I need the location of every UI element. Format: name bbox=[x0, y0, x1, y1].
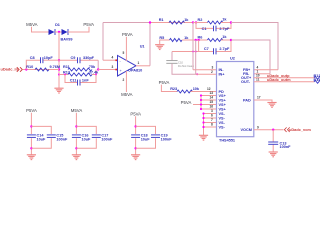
svg-text:3: 3 bbox=[112, 65, 114, 69]
node C7 right bbox=[230, 39, 232, 41]
svg-text:13: 13 bbox=[210, 91, 214, 95]
svg-text:THS4551: THS4551 bbox=[219, 139, 235, 143]
wire diode link bbox=[55, 31, 62, 33]
svg-text:VS+: VS+ bbox=[219, 103, 227, 107]
svg-text:VS+: VS+ bbox=[219, 94, 227, 98]
wire R13 row bbox=[59, 70, 96, 75]
wire VS- bus bbox=[204, 114, 217, 136]
wire R6 right bbox=[221, 39, 231, 41]
svg-text:C9: C9 bbox=[71, 56, 76, 60]
svg-text:U1: U1 bbox=[140, 45, 145, 49]
wire group2 tee bbox=[76, 126, 96, 148]
wire feedback vertical bbox=[102, 23, 104, 61]
node VS- 3 bbox=[202, 121, 204, 123]
capacitor C18 bbox=[131, 134, 140, 136]
svg-text:1nF: 1nF bbox=[82, 78, 89, 82]
svg-text:uDadc_in: uDadc_in bbox=[1, 67, 19, 72]
ground (group2) bbox=[72, 155, 81, 160]
svg-text:P5VA: P5VA bbox=[159, 80, 170, 85]
node C10 to IN+ bbox=[196, 73, 198, 75]
diode D1a bbox=[49, 29, 55, 35]
node diode junction bbox=[58, 31, 60, 33]
node VOCM bbox=[272, 129, 274, 131]
svg-text:BAV99: BAV99 bbox=[61, 38, 73, 42]
svg-text:9: 9 bbox=[257, 125, 259, 129]
svg-text:IN-: IN- bbox=[219, 68, 225, 72]
wire input bbox=[23, 69, 59, 71]
svg-text:P5VA: P5VA bbox=[83, 22, 94, 27]
node R5/R6 junction bbox=[195, 39, 197, 41]
svg-text:10uF: 10uF bbox=[37, 137, 47, 141]
node VS- 1 bbox=[202, 112, 204, 114]
resistor R1 bbox=[169, 21, 184, 24]
svg-text:100nF: 100nF bbox=[56, 137, 68, 141]
wire R2 right bbox=[221, 22, 231, 24]
node VS+ 1 bbox=[200, 94, 202, 96]
svg-text:15: 15 bbox=[210, 100, 214, 104]
svg-text:9.76M: 9.76M bbox=[50, 65, 61, 69]
op-amp U1 bbox=[118, 56, 137, 77]
svg-text:R10: R10 bbox=[26, 65, 33, 69]
svg-text:VS-: VS- bbox=[219, 112, 226, 116]
svg-text:M5VA: M5VA bbox=[121, 92, 133, 97]
wire to R1 bbox=[150, 22, 193, 24]
capacitor C13 bbox=[272, 130, 274, 152]
node at resistor row bbox=[58, 68, 60, 70]
svg-text:16: 16 bbox=[210, 105, 214, 109]
wire C7 loop left bbox=[198, 40, 200, 52]
svg-text:R6: R6 bbox=[198, 35, 203, 39]
node VS+ 2 bbox=[200, 99, 202, 101]
svg-text:17: 17 bbox=[257, 96, 261, 100]
svg-text:2.7pF: 2.7pF bbox=[219, 47, 230, 51]
svg-text:R2: R2 bbox=[198, 18, 203, 22]
node group3 bottom bbox=[134, 147, 136, 149]
pin dot op-amp bbox=[115, 69, 117, 71]
ground (C13) bbox=[269, 152, 278, 157]
svg-text:VS+: VS+ bbox=[219, 107, 227, 111]
svg-text:uDadc_vcm: uDadc_vcm bbox=[289, 127, 311, 132]
svg-text:IN+: IN+ bbox=[219, 73, 226, 77]
wire op-amp V- stub bbox=[125, 71, 127, 92]
wire group3 stem bbox=[135, 116, 137, 155]
node C9 drop bbox=[97, 68, 99, 70]
wire feedback loop FB- bbox=[231, 40, 270, 74]
svg-text:R5: R5 bbox=[159, 36, 164, 40]
svg-text:10pF: 10pF bbox=[44, 56, 54, 60]
node group1 top bbox=[30, 125, 32, 127]
resistor R5 bbox=[170, 39, 183, 42]
capacitor C11 bbox=[65, 75, 96, 83]
port uDadc_vcm bbox=[284, 127, 289, 132]
svg-text:U2: U2 bbox=[230, 57, 235, 61]
wire to P5VA bbox=[68, 27, 89, 32]
resistor R14 bbox=[314, 80, 320, 83]
node C7 row bbox=[195, 51, 197, 53]
resistor R2 bbox=[207, 21, 222, 24]
svg-text:5: 5 bbox=[123, 51, 125, 55]
svg-text:VS-: VS- bbox=[219, 116, 226, 120]
svg-text:R1: R1 bbox=[159, 18, 164, 22]
node VS+ 4 bbox=[200, 108, 202, 110]
svg-text:C10: C10 bbox=[178, 60, 183, 64]
ground (group1) bbox=[27, 155, 36, 160]
node R13 left bbox=[64, 74, 66, 76]
svg-text:D1: D1 bbox=[55, 23, 60, 27]
node C1 left bbox=[195, 21, 197, 23]
wire op-amp output bbox=[136, 65, 150, 67]
node input bbox=[25, 68, 27, 70]
svg-text:330pF: 330pF bbox=[83, 56, 95, 60]
node group1 bottom bbox=[30, 147, 32, 149]
svg-text:P5VA: P5VA bbox=[181, 100, 192, 105]
svg-text:P5VA: P5VA bbox=[26, 108, 37, 113]
svg-text:100nF: 100nF bbox=[161, 137, 173, 141]
node output feedback bbox=[149, 21, 151, 23]
resistor R6 bbox=[207, 39, 222, 42]
wire group1 tee bbox=[31, 126, 51, 148]
node VS- 2 bbox=[202, 117, 204, 119]
svg-text:OUT-: OUT- bbox=[241, 80, 251, 84]
wire IN- stub bbox=[193, 69, 217, 71]
svg-text:VS-: VS- bbox=[219, 121, 226, 125]
svg-text:2: 2 bbox=[211, 70, 213, 74]
svg-text:2: 2 bbox=[123, 78, 125, 82]
diode D1b bbox=[62, 29, 68, 35]
node C7 row left bbox=[192, 51, 194, 53]
wire P5VA to bus bbox=[193, 104, 201, 106]
wire FB+ stub bbox=[254, 69, 278, 71]
svg-text:10k: 10k bbox=[193, 87, 200, 91]
wire VS+ bus bbox=[200, 96, 202, 110]
node R13 right bbox=[95, 74, 97, 76]
svg-text:P5VA: P5VA bbox=[122, 32, 133, 37]
svg-text:R13: R13 bbox=[63, 70, 70, 74]
wire clamp node vertical down to ground bbox=[58, 32, 60, 88]
ground (input network) bbox=[54, 88, 63, 93]
wire junction to R2 bbox=[193, 22, 207, 24]
svg-text:R14: R14 bbox=[314, 78, 320, 82]
svg-text:6: 6 bbox=[211, 114, 213, 118]
svg-text:1: 1 bbox=[138, 61, 140, 65]
wire VS+ stubs bbox=[201, 96, 217, 110]
capacitor C15 bbox=[47, 134, 56, 136]
capacitor C19 bbox=[151, 134, 160, 136]
ground (group3) bbox=[131, 155, 140, 160]
wire FB- stub bbox=[254, 73, 270, 75]
svg-text:P5VA: P5VA bbox=[130, 112, 141, 117]
capacitor C1 bbox=[196, 23, 231, 29]
node group3 top bbox=[134, 125, 136, 127]
svg-text:100nF: 100nF bbox=[101, 137, 113, 141]
node VS- 4 bbox=[202, 126, 204, 128]
wire op-amp pin 4 feedback bbox=[103, 59, 118, 61]
wire OUT+ bbox=[254, 77, 315, 79]
resistor R23 bbox=[177, 90, 192, 93]
node R1/R2 junction bbox=[192, 21, 194, 23]
wire OUT- bbox=[254, 81, 315, 83]
svg-text:10uF: 10uF bbox=[141, 137, 151, 141]
svg-text:7: 7 bbox=[211, 118, 213, 122]
wire IN- drop bbox=[192, 23, 194, 70]
svg-text:uDadc_outm: uDadc_outm bbox=[267, 77, 291, 82]
IC U2 THS4551 bbox=[217, 62, 254, 137]
wire VOCM bbox=[254, 129, 284, 131]
svg-text:VS+: VS+ bbox=[219, 98, 227, 102]
capacitor C17 bbox=[92, 134, 101, 136]
svg-text:VS-: VS- bbox=[219, 125, 226, 129]
node at R13 row bbox=[58, 74, 60, 76]
capacitor C7 bbox=[213, 48, 215, 54]
svg-text:PAD: PAD bbox=[243, 98, 251, 102]
resistor R11 bbox=[68, 68, 92, 71]
wire op-amp V+ stub bbox=[125, 37, 127, 61]
svg-text:R11: R11 bbox=[63, 65, 70, 69]
svg-text:4: 4 bbox=[112, 56, 114, 60]
svg-text:VOCM: VOCM bbox=[241, 128, 252, 132]
node group2 bottom bbox=[75, 147, 77, 149]
capacitor C10 (do not insert) bbox=[171, 52, 173, 61]
capacitor C16 bbox=[72, 134, 81, 136]
svg-text:OPA810: OPA810 bbox=[128, 69, 142, 73]
ground (R5 input) bbox=[155, 45, 164, 50]
svg-text:75k: 75k bbox=[89, 65, 96, 69]
wire output riser bbox=[149, 22, 151, 66]
wire PAD bbox=[254, 100, 272, 103]
svg-text:10uF: 10uF bbox=[82, 137, 92, 141]
wire R23 left bbox=[161, 85, 177, 92]
pin dot op-amp bbox=[115, 59, 117, 61]
capacitor C9 bbox=[59, 59, 77, 61]
svg-text:2.7pF: 2.7pF bbox=[219, 27, 230, 31]
wire group3 tee bbox=[136, 126, 156, 148]
node at cap row bbox=[58, 59, 60, 61]
wire group2 stem bbox=[75, 113, 77, 155]
svg-text:C1: C1 bbox=[202, 27, 207, 31]
wire M5VA stub bbox=[32, 27, 49, 32]
svg-text:C8: C8 bbox=[30, 56, 35, 60]
svg-text:3: 3 bbox=[211, 109, 213, 113]
svg-text:R23: R23 bbox=[170, 87, 177, 91]
node C7 left top bbox=[197, 39, 199, 41]
wire main row to op-amp pin 3 bbox=[98, 69, 117, 71]
node group2 top bbox=[75, 125, 77, 127]
wire group1 stem bbox=[30, 113, 32, 155]
svg-text:C7: C7 bbox=[204, 47, 209, 51]
resistor R12 bbox=[314, 76, 320, 79]
svg-text:8: 8 bbox=[211, 123, 213, 127]
svg-text:Do Not Insert: Do Not Insert bbox=[178, 64, 194, 68]
capacitor C14 bbox=[27, 134, 36, 136]
resistor R10 bbox=[35, 68, 49, 71]
svg-text:14: 14 bbox=[210, 96, 214, 100]
ground (PAD) bbox=[267, 103, 276, 108]
capacitor C8 bbox=[26, 60, 40, 69]
ground (VS- bus) bbox=[199, 135, 208, 140]
wire R23 to PD bbox=[191, 91, 217, 93]
svg-text:M5VA: M5VA bbox=[26, 22, 38, 27]
wire feedback top bbox=[103, 22, 150, 24]
svg-text:100nF: 100nF bbox=[280, 145, 292, 149]
node C1 right bbox=[230, 21, 232, 23]
svg-text:C11: C11 bbox=[70, 78, 77, 82]
wire IN+ stub bbox=[196, 73, 217, 75]
wire R5 left bbox=[160, 40, 170, 45]
wire R5 right bbox=[182, 39, 207, 41]
wire C7 bottom row bbox=[172, 40, 231, 52]
wire IN+ drop bbox=[195, 40, 197, 74]
svg-text:37.4k: 37.4k bbox=[89, 70, 99, 74]
node VS+ 3 bbox=[200, 103, 202, 105]
wire C9 drop bbox=[97, 60, 99, 69]
svg-text:M5VA: M5VA bbox=[71, 108, 83, 113]
resistor R13 bbox=[68, 73, 92, 76]
wire feedback loop FB+ bbox=[231, 23, 278, 70]
